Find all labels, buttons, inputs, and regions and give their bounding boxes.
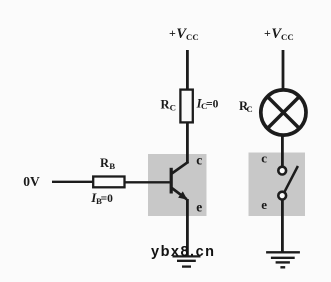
svg-text:c: c xyxy=(196,152,202,167)
svg-text:ybx8.cn: ybx8.cn xyxy=(151,244,216,260)
svg-text:e: e xyxy=(196,200,202,215)
wire Vcc to lamp xyxy=(282,50,285,90)
svg-text:=0: =0 xyxy=(101,193,114,205)
svg-text:C: C xyxy=(170,103,176,113)
emitter arrowhead xyxy=(178,191,187,199)
label +Vcc (left) xyxy=(169,26,199,42)
wire lamp to switch xyxy=(281,135,284,167)
label RC (right) xyxy=(239,99,253,114)
ground (left) xyxy=(173,256,201,266)
label IC=0 xyxy=(196,96,219,111)
wire emitter to ground (left) xyxy=(186,199,189,256)
transistor Q1 (npn) xyxy=(171,162,188,200)
switch blade (open) xyxy=(284,166,298,193)
svg-text:C: C xyxy=(246,104,252,114)
label +Vcc (right) xyxy=(264,26,294,42)
switch contact c (top terminal) xyxy=(278,167,286,175)
emitter lead xyxy=(172,188,187,199)
svg-text:+: + xyxy=(169,26,176,40)
wire Vcc to Rc (left) xyxy=(186,50,189,91)
resistor RB (horizontal) xyxy=(93,177,124,188)
resistor RC (left, vertical) xyxy=(180,90,192,123)
label RB xyxy=(100,156,115,171)
svg-text:e: e xyxy=(261,197,267,212)
ground (right) xyxy=(266,252,300,267)
wire Rc to collector xyxy=(186,122,189,163)
svg-text:CC: CC xyxy=(186,32,199,42)
svg-text:CC: CC xyxy=(281,32,294,42)
svg-text:+: + xyxy=(264,26,271,40)
lamp RC (circle with X) xyxy=(261,90,306,135)
shaded box (right switch region) xyxy=(249,153,306,217)
svg-text:0V: 0V xyxy=(23,174,40,189)
switch contact e (bottom terminal) xyxy=(278,192,286,200)
label IB=0 xyxy=(90,190,113,206)
svg-text:c: c xyxy=(261,150,267,165)
collector lead xyxy=(172,162,189,174)
svg-text:B: B xyxy=(109,161,115,171)
shaded box (left transistor region) xyxy=(148,154,207,216)
wire switch to ground (right) xyxy=(281,199,284,252)
base bar xyxy=(170,168,173,194)
label RC (left) xyxy=(161,97,176,112)
svg-text:=0: =0 xyxy=(206,98,219,110)
wire RB to base xyxy=(125,181,170,183)
wire input to RB xyxy=(52,181,94,183)
